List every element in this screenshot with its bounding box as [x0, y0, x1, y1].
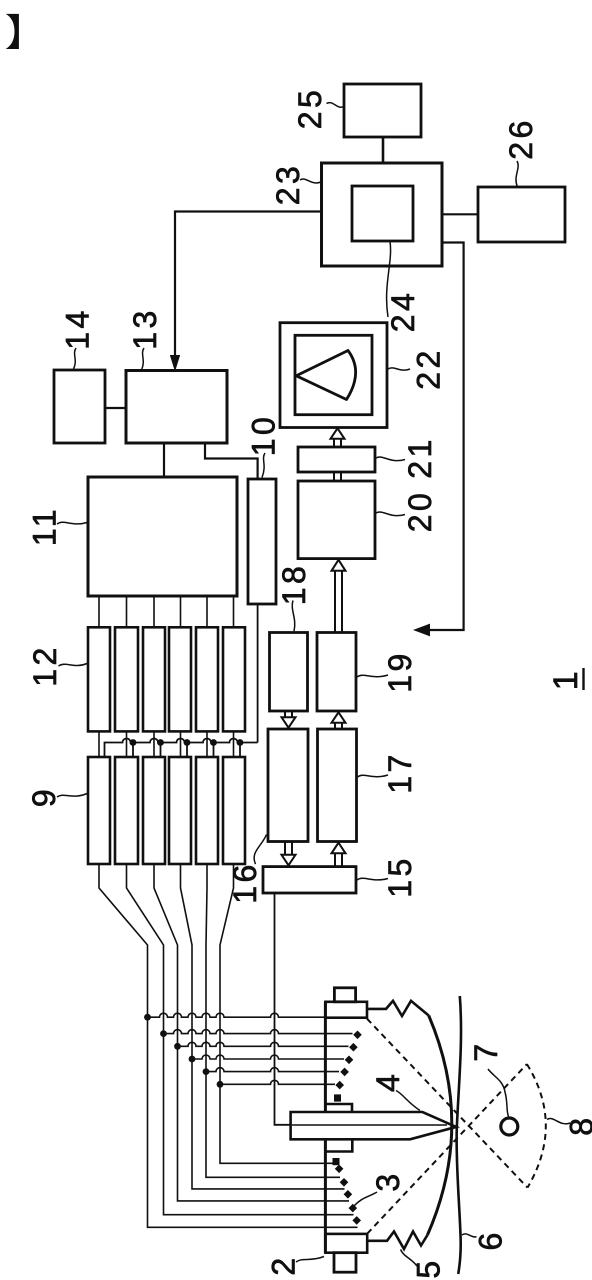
- svg-text:15: 15: [382, 855, 418, 898]
- box 25: [344, 84, 421, 137]
- wire 23-26: [442, 213, 478, 215]
- dashed arc 8: [527, 1064, 546, 1188]
- open arrow 15 to 17 (up): [335, 853, 342, 867]
- wire 23 to arrow into box 13: [175, 212, 322, 357]
- wire 25-23: [382, 137, 385, 163]
- dashed scan line lower: [367, 1064, 527, 1234]
- wire from 9 box5: [206, 864, 340, 1177]
- svg-text:4: 4: [370, 1071, 406, 1092]
- svg-text:5: 5: [411, 1257, 447, 1278]
- svg-text:10: 10: [246, 414, 282, 457]
- svg-text:19: 19: [382, 650, 418, 693]
- wire 10 down to bus: [257, 604, 259, 743]
- wires 12 to 9 boxes: [99, 731, 234, 757]
- svg-text:7: 7: [468, 1040, 504, 1061]
- leader 4: [396, 1091, 420, 1111]
- leader 8: [547, 1118, 570, 1123]
- probe bottom connector: [334, 1253, 356, 1273]
- sector icon inside 22: [296, 351, 355, 400]
- wire from 9 box1 to probe (staircase): [99, 864, 358, 1227]
- zigzag spring bottom 5: [367, 1232, 427, 1250]
- svg-text:24: 24: [385, 290, 421, 333]
- double line 20-21: [334, 472, 341, 481]
- open arrow 19 to 20: [335, 571, 342, 633]
- junction dots on vertical wires: [144, 1014, 223, 1088]
- leader 22: [388, 368, 410, 370]
- box 26: [478, 187, 565, 242]
- upper element wire 3: [178, 1042, 349, 1046]
- header bracket 】: [6, 14, 19, 49]
- probe step above needle: [325, 1104, 352, 1112]
- wire from 9 box3: [154, 864, 349, 1201]
- svg-text:20: 20: [402, 490, 438, 533]
- zigzag spring top 5: [367, 1001, 429, 1016]
- svg-text:17: 17: [382, 751, 418, 794]
- leader 26: [516, 161, 518, 187]
- leader 10: [262, 453, 265, 478]
- wire 14-13: [105, 407, 126, 409]
- probe step below needle: [325, 1139, 352, 1151]
- svg-text:6: 6: [472, 1229, 508, 1250]
- upper element wire 5: [206, 1068, 339, 1072]
- svg-text:1: 1: [547, 668, 585, 690]
- box 20: [298, 481, 375, 559]
- open arrow 16 to 15 (down): [285, 842, 292, 856]
- dashed scan line upper: [367, 1019, 528, 1188]
- svg-text:14: 14: [60, 307, 96, 350]
- leader 3: [354, 1192, 378, 1207]
- leader 6: [462, 1234, 477, 1237]
- underline of 1: [582, 668, 584, 690]
- probe bottom flange: [325, 1234, 367, 1253]
- arrowhead into box 13: [171, 356, 180, 371]
- open arrow 21 to 22: [334, 438, 341, 447]
- wire from 9 box4: [181, 864, 345, 1189]
- target circle 7: [501, 1118, 518, 1135]
- svg-text:11: 11: [27, 506, 63, 546]
- svg-text:8: 8: [564, 1114, 592, 1135]
- bus with hops between 12 and 9: [105, 739, 258, 758]
- upper element wire 2: [164, 1030, 353, 1034]
- needle 4: [291, 1112, 457, 1139]
- group 9 amp boxes: [88, 757, 110, 864]
- wire 13-11: [163, 443, 165, 477]
- box 10: [248, 479, 276, 604]
- svg-text:22: 22: [411, 347, 447, 390]
- svg-text:9: 9: [26, 786, 62, 807]
- box 21: [298, 447, 375, 472]
- probe top flange: [325, 1002, 367, 1018]
- leader 23: [300, 179, 321, 183]
- box 19: [317, 633, 356, 712]
- box 24: [352, 186, 413, 241]
- leader 20: [376, 512, 405, 516]
- svg-text:3: 3: [370, 1170, 406, 1191]
- group 12 delay boxes: [88, 627, 110, 731]
- leader 16: [254, 835, 266, 865]
- probe top connector: [334, 988, 355, 1002]
- upper element wire 4: [192, 1055, 344, 1059]
- svg-text:18: 18: [276, 563, 312, 606]
- transducer elements 3 upper group: [334, 1031, 362, 1102]
- probe body left wall: [324, 1002, 327, 1253]
- svg-text:12: 12: [27, 644, 63, 687]
- box 17: [318, 729, 357, 842]
- leader 21: [376, 457, 405, 461]
- box 22 outer (monitor): [280, 323, 387, 428]
- box 14: [54, 370, 105, 443]
- leader 11: [57, 522, 87, 524]
- wires 11 to 12 boxes: [99, 596, 234, 627]
- box 11: [88, 477, 237, 596]
- transducer elements 3 lower group: [333, 1158, 362, 1225]
- svg-text:25: 25: [292, 87, 328, 130]
- open arrow 18 to 16 (down): [285, 711, 292, 718]
- junction dots on bus: [130, 739, 244, 746]
- open arrow 17 to 19 (up): [335, 723, 342, 730]
- leader 15: [357, 878, 388, 880]
- svg-text:2: 2: [266, 1254, 302, 1275]
- box 23: [322, 163, 443, 266]
- box 18: [270, 633, 308, 712]
- body surface wavy line 6: [457, 996, 461, 1274]
- needle inner line: [292, 1124, 447, 1126]
- leader 13: [142, 348, 145, 370]
- wire 15 down to needle: [275, 893, 291, 1125]
- box 13: [126, 371, 227, 444]
- wire from 9 box2: [127, 864, 354, 1215]
- upper element wire 1 with hops: [148, 1013, 326, 1017]
- leader 17: [358, 775, 389, 777]
- leader 2: [296, 1257, 324, 1263]
- leader 18: [292, 601, 295, 632]
- leader 19: [357, 675, 388, 677]
- leader 12: [59, 664, 88, 667]
- box 16: [268, 729, 308, 842]
- svg-text:16: 16: [227, 861, 263, 904]
- svg-text:23: 23: [270, 163, 306, 206]
- box 22 inner screen: [295, 335, 372, 414]
- svg-text:26: 26: [503, 117, 539, 160]
- arrowhead pointing left: [415, 624, 430, 635]
- box 15: [263, 867, 356, 893]
- leader 5: [401, 1250, 418, 1267]
- svg-text:21: 21: [402, 436, 438, 479]
- stubs from dots to 9 boxes: [133, 743, 240, 758]
- leader 25: [327, 103, 344, 108]
- leader 14: [74, 348, 77, 369]
- leader 7: [488, 1069, 509, 1117]
- wire 13-10: [205, 443, 258, 479]
- upper element wire 6: [220, 1080, 335, 1084]
- leader 24: [387, 242, 391, 318]
- svg-text:13: 13: [127, 307, 163, 350]
- wire from 9 box6: [220, 864, 334, 1163]
- solid arc (acoustic window): [428, 1016, 452, 1235]
- wire 23 right down to left arrow: [429, 243, 464, 631]
- leader 9: [57, 794, 87, 798]
